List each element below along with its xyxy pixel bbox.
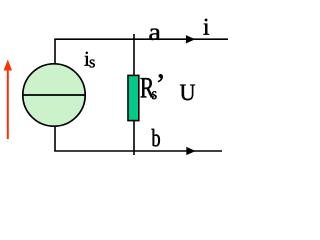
- label i (output current): [203, 19, 209, 35]
- wire: source top to corner: [54, 39, 56, 63]
- label Rs' (resistor designator): [141, 74, 163, 99]
- node b label: [151, 129, 160, 147]
- arrowhead: bottom wire: [186, 147, 195, 155]
- wire: resistor bottom leg and node b tick: [133, 120, 135, 155]
- node a label: [149, 29, 160, 40]
- wire: node a tick and resistor top leg: [133, 34, 135, 76]
- label U (voltage): [180, 85, 195, 101]
- wire: top horizontal: [54, 38, 228, 40]
- red arrow (current direction, left): [4, 60, 12, 140]
- current source is: [23, 64, 85, 126]
- wire: source bottom to corner: [54, 127, 56, 152]
- wire: bottom horizontal: [54, 150, 222, 152]
- label is (source current): [84, 52, 94, 68]
- arrowhead: current i (top): [186, 35, 195, 43]
- resistor Rs': [128, 75, 139, 120]
